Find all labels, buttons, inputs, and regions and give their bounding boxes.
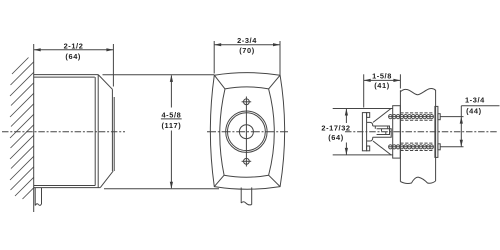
screw top: [244, 99, 250, 105]
svg-text:(44): (44): [466, 107, 482, 116]
door top break line: [400, 89, 435, 95]
side view mounting foot: [34, 188, 36, 206]
svg-text:(117): (117): [161, 121, 181, 130]
armature flange: [362, 113, 366, 151]
joint elbow bottom: [367, 137, 373, 141]
flange bottom nub: [367, 146, 370, 151]
gusset diagonal bottom: [373, 141, 391, 155]
horizontal centerline middle segment: [207, 131, 288, 133]
door bottom break line: [400, 177, 435, 183]
svg-text:4-5/8: 4-5/8: [161, 110, 181, 119]
dimension 2-1/2 (64): [112, 44, 114, 87]
bolt centerline extensions: [440, 116, 463, 118]
joint elbow top: [367, 122, 373, 126]
joint meander: [373, 126, 390, 135]
bolt end upper: [438, 114, 440, 120]
spindle tab below front view: [240, 188, 242, 204]
wall face line: [33, 44, 35, 212]
dimension 2-3/4 (70): [213, 41, 215, 74]
gusset diagonal top: [373, 109, 391, 123]
svg-text:2-1/2: 2-1/2: [64, 41, 84, 50]
front view outer shape: [210, 73, 284, 190]
bolt end lower: [438, 144, 440, 150]
door panel right edge: [435, 90, 437, 181]
side view magnet face edges: [111, 89, 113, 171]
near mounting plate on door: [393, 106, 401, 158]
armature top edge line: [333, 108, 393, 110]
front view bezel diagonals: [214, 75, 225, 89]
side view body outline: [34, 74, 99, 76]
svg-text:(70): (70): [239, 46, 255, 55]
wall hatching: [10, 58, 34, 200]
magnet face circles: [226, 111, 267, 152]
svg-text:2-3/4: 2-3/4: [237, 36, 257, 45]
svg-text:(64): (64): [65, 52, 81, 61]
vertical centerline front view: [245, 97, 247, 167]
svg-text:1-5/8: 1-5/8: [372, 72, 392, 81]
dimension 4-5/8 (117): [170, 75, 172, 107]
dimension 2-17/32 (64): [345, 109, 347, 124]
extension lines to front view: [103, 74, 215, 76]
horizontal centerline left segment: [2, 131, 125, 133]
screw bottom: [244, 158, 250, 164]
svg-text:2-17/32: 2-17/32: [321, 123, 350, 132]
svg-text:(64): (64): [328, 133, 344, 142]
hidden hole lines upper: [400, 112, 433, 114]
dimension 1-5/8 (41): [363, 74, 365, 107]
horizontal centerline right segment: [345, 131, 497, 133]
far mounting plate: [435, 106, 438, 157]
side view bottom chamfer: [100, 171, 113, 188]
hidden hole lines lower: [400, 142, 433, 144]
upper through-bolt threads: [389, 116, 434, 118]
dimension 1-3/4 (44): [461, 105, 499, 107]
side view top chamfer: [98, 75, 112, 90]
front view inner face: [220, 87, 275, 177]
armature bottom edge line: [333, 154, 393, 156]
svg-text:1-3/4: 1-3/4: [465, 96, 485, 105]
flange top nub: [367, 113, 370, 118]
door panel left edge: [399, 90, 401, 181]
lower through-bolt threads: [389, 146, 434, 148]
svg-text:(41): (41): [374, 81, 390, 90]
